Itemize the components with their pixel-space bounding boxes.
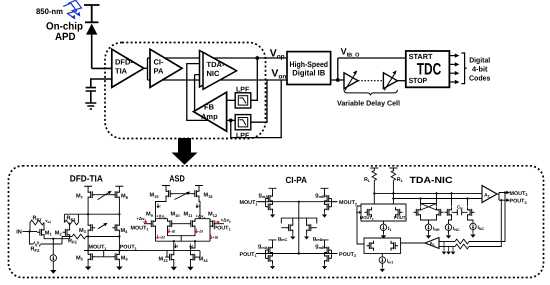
svg-text:LPF: LPF [236, 133, 250, 140]
light arrows [63, 0, 81, 19]
wire POUT1 gate [217, 223, 224, 225]
wire FB node loop to Von [231, 80, 281, 138]
red arrow m12 [215, 221, 220, 223]
wire M8 drain down [118, 200, 120, 223]
wire M12 source down [209, 229, 211, 242]
label POUT3 [510, 199, 527, 205]
current source INC 2 [470, 223, 485, 238]
wire M2 drain [69, 223, 71, 228]
transistor pair1 left [365, 207, 372, 217]
wire M7 drain down [87, 200, 89, 223]
svg-text:-ΔI: -ΔI [198, 230, 203, 234]
transistor M2 [55, 227, 70, 237]
svg-text:4-bit: 4-bit [472, 65, 488, 74]
resistor RE1 b [64, 214, 78, 225]
svg-text:M2: M2 [55, 230, 63, 236]
wire M14 drain [191, 241, 196, 252]
LPF2 [235, 115, 251, 140]
transistor M1 [37, 227, 52, 237]
wire MOUT1 node [84, 237, 128, 252]
wire rail1 [374, 192, 482, 194]
transistor M7 [76, 190, 95, 200]
LPF1 [235, 87, 251, 109]
wire M3 source down [87, 233, 89, 237]
label POUT2 [394, 215, 407, 221]
diff pair 2 box [357, 206, 401, 253]
svg-text:Digital IB: Digital IB [292, 69, 325, 78]
current source INR [425, 224, 440, 239]
brace under delay cells [344, 90, 397, 96]
wire bottom rail POUT [256, 253, 338, 255]
label On-chip APD [46, 21, 83, 43]
svg-text:DFD-TIA: DFD-TIA [70, 173, 103, 183]
current mark right [196, 204, 200, 209]
resistor fb1 [439, 239, 469, 244]
node tail right [194, 240, 196, 242]
ground M5 [85, 262, 91, 271]
wire row2 top left [156, 219, 211, 226]
label MOUT1 [131, 226, 149, 232]
label Digital 4-bit Codes [469, 55, 491, 82]
svg-text:M10: M10 [171, 212, 181, 218]
svg-text:RF2: RF2 [68, 238, 77, 244]
supply bar M16 [195, 186, 203, 189]
label MOUT1 [89, 245, 107, 251]
current source INC 1 [445, 224, 460, 239]
cross pair B right transistor [468, 207, 475, 217]
svg-text:M13: M13 [159, 257, 169, 263]
transistor M14 [191, 252, 209, 263]
svg-text:gmC: gmC [313, 236, 323, 242]
transistor M11 [188, 219, 195, 229]
svg-text:POUT1: POUT1 [120, 245, 137, 251]
svg-text:M6: M6 [121, 255, 129, 261]
label Von [271, 68, 286, 81]
op-amp A2 [482, 186, 497, 203]
svg-text:CI-: CI- [154, 58, 165, 67]
capacitor CN [452, 205, 468, 216]
svg-text:POUT1: POUT1 [240, 252, 257, 258]
wire middle box [168, 229, 196, 242]
svg-text:STOP: STOP [409, 76, 428, 85]
wire M7 M8 gates with arrow [95, 191, 112, 200]
svg-text:POUT3: POUT3 [510, 199, 527, 205]
bracket digital codes [461, 53, 466, 84]
svg-text:MOUT1: MOUT1 [131, 226, 149, 232]
node IB out junction [336, 78, 340, 82]
svg-text:Codes: Codes [469, 74, 491, 83]
red note dv right [221, 218, 232, 224]
wire M15 drain down [156, 199, 167, 219]
wire M14 gate link [167, 250, 200, 252]
svg-text:RE1: RE1 [67, 216, 77, 222]
ground fb3 [451, 250, 456, 255]
svg-text:VIB_O: VIB_O [341, 47, 361, 59]
node A2 out top [504, 191, 506, 193]
transistor M4 [112, 223, 128, 234]
current source bias [50, 239, 56, 268]
wire M9 source down [155, 229, 157, 242]
svg-text:RF2: RF2 [31, 247, 40, 253]
node RL1 [373, 192, 375, 194]
wire dotted between delay cells [358, 80, 383, 82]
supply bar RL2 [389, 168, 397, 171]
red current m12 [210, 235, 218, 240]
svg-text:Von: Von [271, 68, 286, 81]
label RF2 [31, 247, 40, 253]
grounds fb [444, 242, 453, 251]
wire Vop to LPF1 [251, 58, 257, 100]
svg-text:TDA-: TDA- [207, 60, 225, 69]
red current m9 [156, 235, 164, 240]
node A2 out bottom [500, 199, 502, 201]
current source I1 [380, 221, 391, 234]
supply bar M7 [84, 186, 92, 189]
svg-text:INC: INC [478, 225, 485, 231]
wire M3 M4 arrow [98, 223, 108, 229]
svg-text:RL: RL [364, 177, 371, 183]
svg-text:CN: CN [457, 205, 463, 211]
title CI-PA [285, 175, 307, 185]
resistor RL1 [364, 171, 376, 194]
photodiode APD [85, 22, 99, 68]
svg-text:NIC: NIC [207, 69, 221, 78]
svg-text:M5: M5 [76, 255, 84, 261]
ground M14 [187, 262, 193, 270]
wire M15 M16 gates arrow [173, 192, 192, 200]
svg-text:M12: M12 [208, 212, 218, 218]
wire IB output [331, 58, 406, 80]
svg-text:gmA: gmA [258, 244, 268, 250]
wire M16 drain down [199, 199, 200, 219]
title DFD-TIA [70, 173, 103, 183]
op-amp CI-PA [150, 49, 182, 87]
wire tip tie [144, 58, 148, 80]
gm cell B bottom-right [315, 240, 337, 269]
svg-text:850-nm: 850-nm [36, 7, 63, 16]
current source Iin1 [379, 253, 393, 272]
label RF2 b [68, 238, 77, 244]
title TDA-NIC [410, 175, 454, 185]
label POUT2 [339, 252, 356, 258]
ground I1 [381, 234, 386, 239]
svg-text:Amp: Amp [201, 112, 218, 121]
svg-text:va1: va1 [45, 218, 51, 224]
supply bar [84, 5, 100, 22]
wire MOUT1 gate [144, 223, 149, 225]
transistor M8 [112, 190, 128, 200]
label MOUT1 [240, 200, 258, 206]
wire FB lower path [187, 64, 235, 121]
resistor fb2 [439, 244, 469, 249]
transistor M3 [79, 223, 95, 234]
supply bar M15 [162, 186, 170, 189]
cross pair A right transistor [437, 207, 444, 217]
wire A2 outputs [497, 191, 510, 202]
svg-text:Variable Delay Cell: Variable Delay Cell [337, 98, 400, 107]
wire rail Von [148, 79, 288, 81]
wire rail Vop [148, 57, 288, 59]
svg-text:M16: M16 [204, 193, 214, 199]
wire cap input [91, 79, 112, 87]
ground fb2 [446, 250, 451, 255]
svg-text:DFD-: DFD- [115, 58, 133, 67]
svg-text:MOUT1: MOUT1 [240, 200, 258, 206]
big black arrow [172, 138, 198, 165]
svg-text:I1: I1 [388, 226, 391, 232]
label M12 [208, 212, 218, 218]
svg-text:ASD: ASD [169, 173, 185, 183]
TDC output arrows [449, 53, 459, 84]
svg-text:gmB: gmB [315, 244, 325, 250]
dashed detail box [9, 166, 544, 278]
svg-text:INC: INC [453, 226, 460, 232]
cross pair B rails [449, 193, 474, 224]
wire FB upper feedback [195, 75, 203, 111]
capacitor [86, 88, 96, 103]
transistor pair1 right [396, 207, 403, 217]
ground M6 [116, 262, 122, 271]
svg-text:+ΔI: +ΔI [159, 236, 165, 240]
svg-text:IN: IN [16, 230, 22, 236]
cross pair B left transistor [445, 207, 452, 217]
ground fb1 [442, 250, 447, 255]
gm cell A bottom-left [258, 240, 277, 269]
op-amp DFD-TIA [112, 49, 144, 87]
label MOUT2 [360, 215, 374, 221]
ground M13 [171, 262, 177, 270]
wire feedback right 2 [469, 200, 501, 246]
svg-text:PA: PA [154, 67, 164, 76]
wire POUT1 to ASD [128, 251, 167, 258]
title ASD [169, 173, 185, 183]
node crossB rails [450, 192, 468, 199]
transistor M6 [112, 252, 128, 262]
transistor M10 [168, 219, 175, 229]
red note dv m11 [196, 213, 206, 219]
svg-text:M8: M8 [121, 194, 129, 200]
op-amp FB Amp [194, 92, 227, 131]
transistor M13 [159, 252, 174, 263]
wire M1 M2 sources join [44, 237, 70, 239]
transistor M15 [150, 189, 174, 199]
label va1 [45, 218, 51, 224]
svg-text:M1: M1 [45, 230, 53, 236]
wire A1 out [401, 242, 425, 244]
wire source rail with RF1 [62, 234, 121, 239]
label POUT1 [214, 226, 231, 232]
delay cell 1 [344, 70, 358, 90]
wire rail2 [393, 198, 482, 200]
gm cell B top-right [315, 188, 337, 217]
svg-text:M11: M11 [184, 212, 194, 218]
transistor M9 [149, 219, 156, 229]
label VIB_O [341, 47, 361, 59]
svg-text:M9: M9 [146, 212, 154, 218]
supply bar M8 [115, 186, 123, 189]
resistor RF2 feedback [29, 232, 62, 247]
transistor pair2 right [391, 241, 398, 251]
wire top rail MOUT [256, 201, 338, 203]
wire LPF1 to FB amp [227, 99, 236, 101]
label MOUT2 [339, 200, 357, 206]
svg-text:TIA: TIA [115, 67, 128, 76]
block TDC [406, 51, 450, 87]
wire center vertical [298, 201, 300, 255]
wire feedback right 1 [469, 193, 505, 242]
wire M5 M6 gates [95, 251, 112, 257]
wire delay to STOP [397, 80, 405, 82]
svg-text:RE1: RE1 [33, 216, 43, 222]
wire M13 M14 gates [165, 251, 200, 258]
red note dv m9 [156, 213, 166, 219]
wire IN [23, 230, 38, 232]
svg-text:M3: M3 [79, 228, 87, 234]
svg-text:Vop: Vop [270, 48, 285, 61]
svg-text:FB: FB [204, 103, 215, 112]
red note dv left [137, 216, 147, 222]
svg-text:+ΔI: +ΔI [213, 236, 219, 240]
svg-text:gmB: gmB [315, 193, 325, 199]
wire APD to TIA input [92, 67, 112, 69]
label M9 [146, 212, 154, 218]
block High-Speed Digital IB [287, 52, 331, 85]
wire tail rail [156, 240, 211, 242]
gm cell C cross box [281, 218, 317, 223]
wire cascode rail [64, 213, 120, 215]
transistor M16 [192, 189, 213, 199]
svg-text:POUT2: POUT2 [339, 252, 356, 258]
node FB input junction [229, 119, 233, 123]
cross pair A X wires [421, 193, 437, 224]
gm cell C left [278, 223, 296, 242]
wire M13 drain [173, 241, 175, 252]
input arrow left [356, 211, 361, 213]
svg-text:I: I [160, 205, 161, 209]
svg-text:I: I [199, 205, 200, 209]
svg-text:MOUT3: MOUT3 [510, 191, 528, 197]
gm cell C right [304, 223, 323, 242]
wire Von to LPF2 [251, 80, 267, 122]
svg-text:M4: M4 [121, 228, 129, 234]
svg-text:Digital: Digital [469, 55, 490, 64]
svg-text:gmC: gmC [278, 236, 288, 242]
node tail left [173, 240, 175, 242]
ground bias [50, 268, 56, 274]
svg-text:INR: INR [433, 226, 440, 232]
red current m11 [195, 229, 202, 234]
label MOUT3 [510, 191, 528, 197]
diff pair 1 box [361, 193, 406, 221]
resistor RL2 [391, 171, 404, 199]
op-amp TDA-NIC (double) [200, 51, 237, 90]
wire POUT1 node [118, 237, 120, 252]
dashed analog front-end box [105, 43, 266, 139]
svg-text:MOUT1: MOUT1 [89, 245, 107, 251]
label Variable Delay Cell [337, 98, 400, 107]
svg-text:CI-PA: CI-PA [285, 175, 307, 185]
label M11 [184, 212, 194, 218]
transistor pair2 left [367, 241, 374, 251]
wire M4 source down [118, 233, 120, 237]
current mark M14 [189, 244, 193, 249]
node crossA rails [419, 192, 437, 199]
red current m10 [168, 229, 175, 234]
svg-text:gmA: gmA [259, 193, 269, 199]
label POUT1 [120, 245, 137, 251]
transistor M12 [210, 219, 217, 229]
svg-text:POUT1: POUT1 [214, 226, 231, 232]
svg-text:+Δvy: +Δvy [221, 218, 232, 224]
svg-text:Iin1: Iin1 [387, 259, 394, 265]
cross pair A left transistor [414, 207, 421, 217]
label POUT1 [240, 252, 257, 258]
svg-text:M7: M7 [76, 194, 84, 200]
label Vop [270, 48, 285, 61]
resistor RE1 a [30, 216, 44, 232]
svg-text:TDA-NIC: TDA-NIC [410, 175, 454, 185]
transistor M5 [76, 252, 95, 262]
current mark left [157, 204, 161, 209]
gm cell A top-left [258, 188, 277, 217]
ground [85, 103, 96, 109]
label M10 [171, 212, 181, 218]
delay cell 2 [383, 70, 397, 90]
svg-text:I: I [177, 245, 178, 249]
current mark M13 [174, 244, 178, 249]
op-amp A1 [425, 238, 439, 249]
svg-text:-ΔI: -ΔI [171, 230, 176, 234]
svg-text:MOUT2: MOUT2 [339, 200, 357, 206]
svg-text:M15: M15 [150, 193, 160, 199]
svg-text:RL: RL [397, 177, 404, 183]
svg-text:APD: APD [55, 31, 76, 43]
node Vop junction [255, 56, 259, 60]
red arrow m9 [143, 221, 148, 223]
label 850-nm [36, 7, 63, 16]
supply bar RL1 [370, 168, 378, 171]
node RL2 [392, 192, 394, 199]
label IN [16, 230, 22, 236]
